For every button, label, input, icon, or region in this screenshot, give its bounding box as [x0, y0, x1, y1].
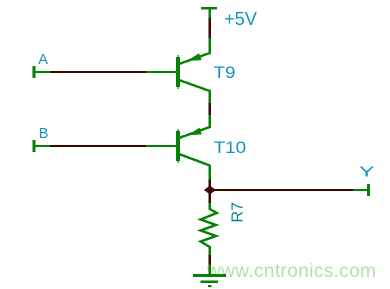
node junction [204, 186, 216, 195]
svg-text:B: B [39, 126, 49, 142]
svg-text:+5V: +5V [224, 9, 257, 29]
wire +5V to T9 emitter [209, 18, 211, 38]
svg-text:T10: T10 [214, 139, 247, 157]
wire B to T10 base [50, 145, 146, 147]
resistor R7 [201, 203, 217, 255]
transistor T9 [146, 38, 211, 103]
transistor T10 [146, 115, 211, 180]
wire R7 to ground [209, 255, 211, 265]
terminal Y [353, 184, 370, 196]
terminal B [33, 140, 51, 152]
terminal A [33, 66, 51, 78]
svg-text:R7: R7 [230, 202, 247, 223]
wire node to terminal Y [210, 189, 353, 191]
wire node to R7 [209, 190, 211, 203]
svg-text:A: A [38, 52, 48, 68]
svg-text:www.cntronics.com: www.cntronics.com [206, 261, 376, 282]
ground [193, 265, 226, 288]
wire T9 collector to T10 emitter [209, 103, 211, 115]
power +5V [201, 7, 217, 18]
wire A to T9 base [50, 71, 146, 73]
wire T10 collector to node [209, 180, 211, 191]
svg-text:Y: Y [359, 164, 375, 180]
svg-text:T9: T9 [214, 64, 236, 82]
